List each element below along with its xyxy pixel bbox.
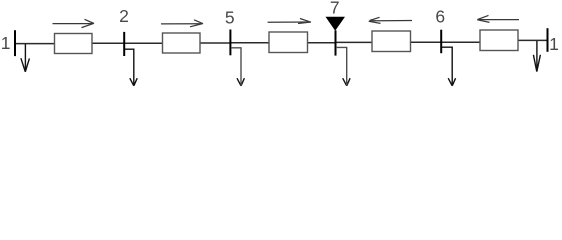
svg-text:5: 5 (225, 7, 235, 27)
svg-text:1: 1 (549, 34, 559, 54)
svg-text:6: 6 (435, 7, 445, 27)
svg-text:1: 1 (1, 33, 11, 53)
svg-text:7: 7 (330, 0, 340, 18)
svg-text:2: 2 (119, 6, 129, 26)
